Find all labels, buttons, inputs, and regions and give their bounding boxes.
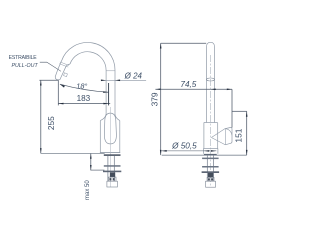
svg-text:18°: 18°: [76, 81, 87, 90]
svg-text:151: 151: [234, 128, 244, 142]
svg-text:Ø 24: Ø 24: [124, 72, 143, 81]
svg-text:255: 255: [46, 116, 56, 130]
svg-text:379: 379: [150, 92, 160, 106]
svg-text:ESTRAIBILE: ESTRAIBILE: [9, 55, 38, 61]
svg-text:74,5: 74,5: [180, 80, 196, 89]
svg-text:Ø 50,5: Ø 50,5: [171, 141, 197, 150]
svg-text:PULL-OUT: PULL-OUT: [11, 63, 38, 69]
svg-text:max 50: max 50: [85, 180, 91, 200]
svg-text:183: 183: [77, 94, 91, 103]
